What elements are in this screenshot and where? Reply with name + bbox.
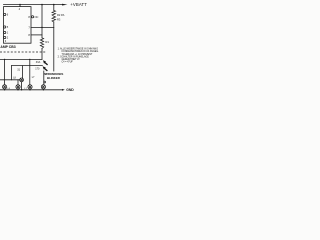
IC box U1 flasher — [4, 7, 32, 44]
wire lamp L4 feed — [43, 71, 45, 85]
arrow tag 33A — [43, 60, 48, 65]
wire top +VBATT rail — [4, 4, 63, 6]
lamp L3 — [28, 85, 32, 89]
svg-text:170: 170 — [35, 67, 40, 70]
wire A horizontal — [0, 58, 42, 60]
node dot rail/R2 — [53, 4, 55, 6]
node dot pin7/R1 — [41, 27, 43, 29]
wire R3 output down to BLINKER label — [53, 22, 55, 71]
pin 8 NC circle right — [31, 16, 33, 18]
wire lamp L2 feed — [17, 80, 19, 85]
wire rail down to R1 — [41, 5, 43, 38]
wire ground rail — [0, 89, 62, 91]
pin 5 NC circle — [4, 26, 6, 28]
wire indicator branch horizontal — [0, 79, 20, 81]
svg-text:C4 = 47UF: C4 = 47UF — [62, 62, 74, 64]
resistor R1 body — [40, 38, 43, 49]
svg-text:NC: NC — [35, 15, 39, 19]
svg-text:R3: R3 — [57, 18, 61, 22]
wire R-stack drop from rail — [53, 5, 55, 11]
node dot rail lamps — [4, 89, 5, 90]
lamp L2 — [16, 85, 20, 89]
wire pin8 to feedback node — [31, 34, 42, 36]
pin 2 NC circle — [4, 36, 6, 38]
wire pin7 to node — [31, 26, 54, 28]
svg-text:TOLERANZ +/- 10 PROZENT: TOLERANZ +/- 10 PROZENT — [62, 53, 93, 56]
svg-text:BLINKER: BLINKER — [47, 76, 61, 80]
arrowhead +VBATT — [62, 4, 68, 6]
node dot wireA/L1 — [4, 59, 5, 60]
svg-text:33A: 33A — [36, 61, 41, 64]
node dot rail/pin4 — [19, 4, 21, 6]
pin 1 NC circle — [4, 31, 6, 33]
dashed separator — [0, 51, 46, 53]
svg-text:+VBATT: +VBATT — [70, 2, 87, 7]
pin 6 NC circle — [4, 13, 6, 15]
wire lamp L1 feed — [4, 59, 6, 84]
svg-text:R2 PA: R2 PA — [57, 13, 65, 17]
svg-text:AMP CB3: AMP CB3 — [0, 45, 15, 49]
svg-text:KONDENSATOREN IN UF ANGEG.: KONDENSATOREN IN UF ANGEG. — [62, 50, 100, 53]
wire pin4 stub to rail — [19, 5, 21, 7]
svg-text:2. SCHALTER IN RUHELAGE: 2. SCHALTER IN RUHELAGE — [58, 55, 90, 58]
wire C5 down to ground rail — [21, 82, 23, 90]
node dot rail/R1 branch — [41, 4, 43, 6]
lamp L4 — [41, 85, 45, 89]
wire lamp stubs to rail — [4, 88, 6, 91]
arrowhead GND — [62, 89, 65, 91]
resistor R2 body — [52, 10, 56, 16]
svg-text:1. ALLE WIDERSTANDE IN OHM ANG: 1. ALLE WIDERSTANDE IN OHM ANG — [58, 48, 99, 51]
svg-text:GND: GND — [66, 88, 74, 92]
lamp L1 — [3, 85, 7, 89]
wire C5 feed from wire B — [22, 66, 24, 78]
svg-text:R1: R1 — [45, 40, 49, 44]
resistor R3 body — [52, 16, 56, 22]
indicator lamp C5 — [20, 78, 24, 82]
wire B left drop — [10, 66, 12, 80]
wire lamp L3 feed — [29, 59, 31, 84]
terminal circle node 31 — [44, 81, 46, 83]
arrow tag 170 — [43, 66, 48, 71]
node dot wireA/L3 — [29, 59, 30, 60]
wire R1 down to wire A — [41, 48, 43, 59]
wire B horizontal — [11, 65, 42, 67]
